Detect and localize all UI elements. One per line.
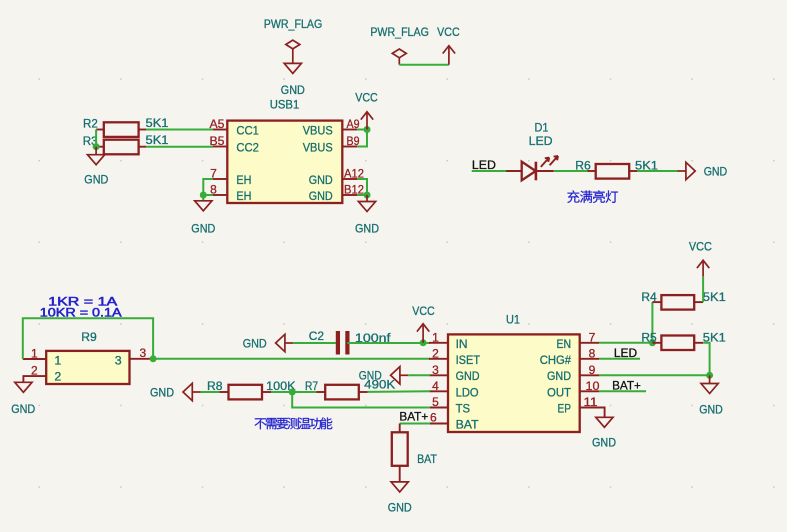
ground R9: [11, 382, 35, 416]
svg-text:USB1: USB1: [270, 98, 300, 112]
svg-text:5: 5: [432, 395, 439, 409]
resistor R6: [575, 158, 658, 178]
svg-text:GND: GND: [191, 222, 215, 236]
pin 11 EP: [558, 395, 600, 416]
power symbol VCC in: [412, 304, 435, 343]
diode D1 LED: [506, 120, 558, 180]
wire R5 to GND: [703, 343, 710, 376]
pin 7 EN: [557, 330, 600, 351]
note charge light: [567, 190, 618, 203]
svg-text:BAT+: BAT+: [399, 410, 428, 424]
svg-text:GND: GND: [84, 173, 108, 187]
wire D1 to R6: [554, 170, 588, 172]
wire gnd to C2: [293, 342, 336, 344]
wire pin6 to BAT: [400, 423, 430, 425]
svg-text:1: 1: [31, 346, 38, 360]
net label LED: [472, 158, 496, 172]
label USB1: [270, 98, 300, 112]
svg-text:R5: R5: [641, 331, 656, 345]
pin 8 CHG#: [540, 346, 599, 367]
wire C2 to pin1: [347, 342, 430, 344]
pin 7 EH: [210, 167, 251, 187]
component R9 body: [46, 351, 129, 384]
svg-text:C2: C2: [309, 329, 324, 343]
svg-text:EH: EH: [236, 173, 251, 187]
pin 3 GND: [429, 363, 480, 383]
svg-text:EP: EP: [558, 402, 572, 416]
svg-text:2: 2: [54, 369, 61, 383]
wire ISET net: [153, 358, 430, 360]
wire pin9: [599, 374, 710, 376]
svg-text:D1: D1: [535, 120, 549, 134]
ground below R2 R3: [84, 147, 108, 187]
wire EH pins: [203, 179, 213, 201]
svg-text:VCC: VCC: [412, 304, 435, 318]
wire TS drop: [292, 392, 430, 408]
svg-text:ISET: ISET: [456, 353, 481, 367]
capacitor C2: [309, 329, 391, 355]
resistor R8: [207, 379, 296, 399]
net label BAT+ pin10: [612, 379, 641, 393]
pin A5 CC1: [210, 117, 259, 137]
resistor R4: [641, 290, 726, 310]
svg-text:R9: R9: [81, 330, 97, 344]
note no temp sense: [255, 417, 333, 429]
junction GND usb: [364, 192, 371, 199]
wire R4 drop: [651, 302, 653, 343]
wire pin8: [599, 358, 640, 360]
component USB1 body: [227, 121, 342, 203]
wire gnd to R8: [201, 391, 220, 393]
svg-text:8: 8: [589, 346, 596, 360]
svg-text:LED: LED: [529, 134, 553, 148]
power symbol VCC top: [437, 25, 460, 65]
wire R3 to pin B5: [146, 146, 213, 148]
svg-text:7: 7: [589, 330, 596, 344]
resistor R2: [83, 116, 169, 137]
svg-text:GND: GND: [388, 501, 412, 515]
pin 4 LDO: [429, 379, 479, 400]
pin B9 VBUS: [303, 134, 360, 155]
svg-text:GND: GND: [592, 436, 616, 450]
global label GND c2: [243, 334, 293, 351]
battery BAT: [392, 424, 437, 482]
pin 5 TS: [429, 395, 470, 416]
svg-text:10: 10: [586, 379, 600, 393]
svg-text:R4: R4: [641, 290, 656, 304]
pin B12 GND: [309, 183, 365, 203]
svg-text:2: 2: [432, 346, 439, 360]
gnd label for PF1: [281, 83, 305, 97]
svg-text:R2: R2: [83, 117, 98, 131]
wire A9 B9 VBUS: [357, 130, 367, 147]
pin 2 ISET: [429, 346, 480, 367]
svg-text:5K1: 5K1: [146, 133, 169, 147]
wire pin10: [599, 390, 646, 392]
svg-text:3: 3: [140, 346, 147, 360]
svg-text:EH: EH: [236, 189, 251, 203]
pin 3 R9: [115, 346, 153, 368]
pin A9 VBUS: [303, 117, 360, 137]
svg-text:GND: GND: [11, 402, 35, 416]
power flag PF1 on GND: [264, 17, 323, 73]
svg-text:PWR_FLAG: PWR_FLAG: [370, 25, 429, 39]
svg-text:OUT: OUT: [547, 385, 571, 399]
net label LED pin8: [614, 346, 637, 360]
pin B5 CC2: [210, 134, 259, 155]
svg-text:9: 9: [589, 363, 596, 377]
svg-text:3: 3: [115, 354, 122, 368]
svg-text:R8: R8: [207, 379, 223, 393]
svg-text:PWR_FLAG: PWR_FLAG: [264, 17, 323, 31]
wire A12 B12 GND: [357, 179, 367, 195]
note 1KR: [48, 295, 118, 309]
wire R8 to R7: [271, 391, 316, 393]
junction VBUS: [364, 126, 371, 133]
wire R2 left to R3 left: [95, 130, 97, 147]
power symbol VCC usb: [355, 91, 378, 130]
svg-text:GND: GND: [456, 369, 480, 383]
label R9: [81, 330, 97, 344]
svg-text:490K: 490K: [364, 377, 396, 391]
global label GND led: [678, 162, 728, 179]
svg-text:CHG#: CHG#: [540, 353, 571, 367]
ground usb right: [355, 195, 379, 236]
svg-text:VBUS: VBUS: [303, 123, 333, 137]
junction pin7: [649, 339, 656, 346]
wire R9 feedback loop: [23, 318, 153, 359]
svg-text:GND: GND: [309, 173, 333, 187]
svg-text:GND: GND: [309, 189, 333, 203]
label U1: [506, 312, 520, 326]
junction EH: [200, 192, 207, 199]
svg-text:11: 11: [584, 395, 598, 409]
wire R7 to LDO: [368, 390, 430, 393]
pin A12 GND: [309, 167, 365, 187]
svg-text:5K1: 5K1: [146, 116, 169, 130]
wire R4 to VCC: [702, 276, 704, 302]
pin 8 EH: [210, 183, 251, 203]
component U1 body: [448, 334, 580, 432]
svg-text:LDO: LDO: [456, 385, 479, 399]
ground EP: [592, 408, 616, 450]
svg-text:2: 2: [31, 363, 38, 377]
note 10KR: [40, 306, 123, 320]
svg-text:6: 6: [430, 411, 437, 425]
pin 1 IN: [429, 330, 468, 351]
pin 10 OUT: [547, 379, 600, 400]
power flag PF2: [370, 25, 429, 65]
junction R3 left: [93, 143, 100, 150]
junction R9 pin3: [150, 355, 157, 362]
wire LED to D1: [472, 170, 522, 172]
wire R2 to pin A5: [146, 129, 213, 131]
svg-text:GND: GND: [281, 83, 305, 97]
svg-text:IN: IN: [456, 337, 468, 351]
svg-text:VCC: VCC: [437, 25, 460, 39]
junction VCC in: [420, 339, 427, 346]
svg-text:1: 1: [54, 354, 61, 368]
power symbol VCC r4: [689, 240, 712, 277]
svg-text:U1: U1: [506, 312, 520, 326]
wire pin3: [408, 374, 430, 376]
svg-text:VCC: VCC: [689, 240, 712, 254]
svg-text:GND: GND: [704, 164, 728, 178]
resistor R7: [305, 377, 396, 399]
svg-text:3: 3: [432, 363, 439, 377]
pin 1 R9: [23, 346, 62, 367]
svg-text:TS: TS: [456, 402, 471, 416]
svg-text:GND: GND: [150, 385, 174, 399]
svg-text:GND: GND: [243, 336, 267, 350]
svg-text:BAT: BAT: [417, 452, 437, 466]
global label GND r8: [150, 383, 201, 400]
net label BAT+ pin6: [399, 410, 428, 424]
svg-text:CC2: CC2: [236, 140, 259, 154]
pin 9 GND: [547, 363, 599, 383]
svg-text:VCC: VCC: [355, 91, 378, 105]
wire pin7 to R5: [599, 342, 652, 344]
ground right: [699, 375, 723, 416]
svg-text:R7: R7: [305, 379, 318, 393]
svg-text:EN: EN: [557, 337, 572, 351]
wire PF2 to VCC: [399, 64, 449, 66]
wire pin8 EH: [203, 194, 213, 196]
svg-text:CC1: CC1: [236, 123, 259, 137]
resistor R3: [83, 133, 169, 155]
svg-text:GND: GND: [699, 403, 723, 417]
junction R8 R7: [289, 389, 296, 396]
svg-text:BAT: BAT: [456, 418, 479, 432]
pin 6 BAT: [429, 411, 479, 432]
wire R6 to GND label: [637, 170, 678, 172]
svg-text:VBUS: VBUS: [303, 140, 333, 154]
svg-text:4: 4: [432, 379, 439, 393]
svg-text:5K1: 5K1: [703, 290, 726, 304]
global label GND pin3: [359, 367, 408, 384]
pin 2 R9: [23, 363, 61, 383]
svg-text:R6: R6: [575, 158, 591, 172]
svg-text:1: 1: [432, 330, 439, 344]
svg-text:GND: GND: [547, 369, 571, 383]
svg-text:GND: GND: [355, 222, 379, 236]
junction pin9: [706, 372, 713, 379]
resistor R5: [641, 331, 726, 351]
ground EH: [191, 201, 215, 236]
ground BAT: [388, 482, 412, 515]
